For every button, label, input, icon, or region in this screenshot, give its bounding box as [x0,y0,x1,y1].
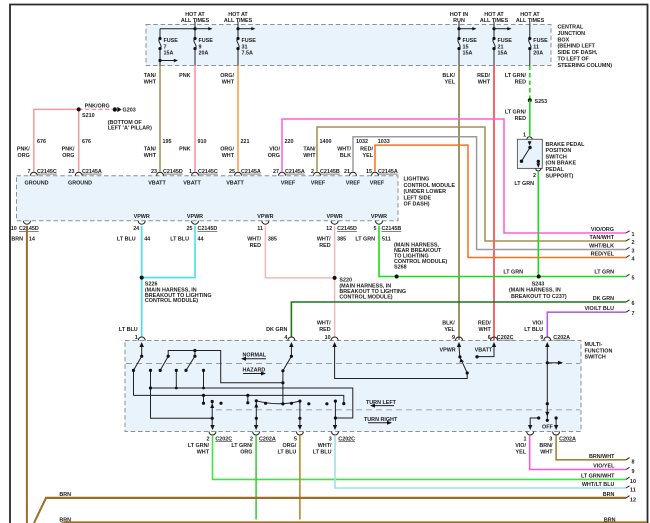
svg-text:WHT/: WHT/ [317,321,331,327]
svg-text:221: 221 [241,139,250,145]
wire LT BLU 44 (LCM pin24 to S226 to MFS pin1) [141,226,143,337]
svg-text:ORG: ORG [18,153,30,159]
svg-text:POSITION: POSITION [546,148,572,154]
svg-text:RED/YEL: RED/YEL [591,252,615,258]
svg-text:1: 1 [135,335,138,341]
svg-text:S253: S253 [535,99,548,105]
svg-text:10: 10 [325,335,331,341]
svg-text:LT GRN: LT GRN [355,237,375,243]
svg-text:RED/: RED/ [360,147,373,153]
svg-text:FUSE: FUSE [242,38,257,44]
svg-text:BLK: BLK [340,153,351,159]
svg-text:9: 9 [199,44,202,50]
svg-text:385: 385 [268,237,277,243]
svg-text:VIO/LT BLU: VIO/LT BLU [584,306,614,312]
svg-text:YEL: YEL [444,327,455,333]
svg-text:FUSE: FUSE [498,38,513,44]
MFS VBATT contact (pin6 C202C) [479,347,495,357]
svg-text:VREF: VREF [370,181,385,187]
MFS top pin row [135,335,544,341]
pin row below LCM [11,226,377,232]
svg-text:BRN: BRN [59,517,71,523]
svg-text:SWITCH: SWITCH [546,154,567,160]
wire name labels above LCM [17,147,374,159]
MFS mode dividers [126,363,580,365]
svg-text:25: 25 [229,169,235,175]
svg-text:385: 385 [337,237,346,243]
svg-text:1: 1 [524,436,527,442]
wire LT GRN/RED (S253 to brake pedal switch pin1) [529,100,531,136]
svg-text:23: 23 [69,169,75,175]
svg-text:5: 5 [632,276,635,282]
svg-text:676: 676 [37,139,46,145]
wire LT GRN 511 (brake switch pin2 to splice S243) [514,172,538,277]
svg-text:WHT/: WHT/ [247,237,261,243]
svg-text:PNK/ORG: PNK/ORG [85,103,110,109]
right edge terminals 1-7 [584,227,614,312]
wire ORG/LT BLU (MFS pin5, down off page) [299,435,301,519]
svg-text:12: 12 [326,226,332,232]
wire LT GRN 511 (LCM pin5 C2145B to terminal 5) [379,226,626,277]
svg-text:FUSE: FUSE [533,38,548,44]
svg-text:LT GRN/: LT GRN/ [231,443,253,449]
svg-text:BRN: BRN [603,492,615,498]
svg-text:GROUND: GROUND [68,181,92,187]
circuit numbers above LCM [37,139,390,145]
svg-text:15A: 15A [164,51,174,57]
svg-text:15A: 15A [498,51,508,57]
MFS turn signal contact C (pin5) [299,401,301,428]
svg-text:1: 1 [523,133,526,139]
MFS bus B1 [151,388,353,418]
svg-text:25: 25 [187,226,193,232]
svg-text:CONTROL MODULE: CONTROL MODULE [404,183,456,189]
svg-text:11: 11 [533,44,539,50]
svg-text:PNK/: PNK/ [17,147,30,153]
multi-function switch (MFS) box [125,341,581,432]
svg-text:910: 910 [198,139,207,145]
wire PNK 910 (fuse9 to LCM pin1 C2145C) [194,66,196,172]
svg-text:OFF: OFF [542,424,553,430]
svg-text:RED: RED [319,243,330,249]
svg-text:3: 3 [329,436,332,442]
fuse 15 15A [457,22,477,66]
MFS lever 2 [160,351,283,383]
svg-text:44: 44 [198,237,204,243]
central junction box (CJB) [146,25,551,66]
svg-text:CENTRAL: CENTRAL [558,25,584,31]
svg-text:7: 7 [28,169,31,175]
MFS bottom edge connector bumps and arrows [209,432,560,436]
svg-text:OF DASH): OF DASH) [404,202,430,208]
svg-text:RED: RED [319,327,330,333]
svg-text:(ON BRAKE: (ON BRAKE [546,161,577,167]
svg-text:BRN: BRN [59,492,71,498]
wire VIO/YEL (MFS pin1 to terminal 9) [530,435,626,469]
svg-text:511: 511 [382,237,391,243]
svg-text:C202C: C202C [215,436,232,442]
svg-text:WHT: WHT [144,79,157,85]
svg-text:4: 4 [284,335,287,341]
svg-text:DK GRN: DK GRN [593,296,614,302]
wire DK GRN (MFS pin4 to terminal 6) [291,302,626,337]
MFS turn signal contact D (pin3 C202C) [334,401,336,428]
svg-text:9: 9 [632,469,635,475]
svg-text:BRAKE PEDAL: BRAKE PEDAL [546,142,586,148]
svg-text:VPWR: VPWR [257,214,273,220]
feed labels [181,12,545,24]
svg-text:10: 10 [11,226,17,232]
svg-text:WHT/: WHT/ [337,147,351,153]
svg-text:NORMAL: NORMAL [243,352,267,358]
splice S210 [77,103,110,119]
svg-text:1400: 1400 [320,139,332,145]
splice S268 [394,243,447,279]
splice S226 [140,276,212,305]
svg-text:TAN/: TAN/ [144,147,157,153]
svg-text:7.5A: 7.5A [242,51,253,57]
svg-text:LEFT SIDE: LEFT SIDE [404,195,432,201]
svg-text:WHT: WHT [144,153,157,159]
svg-text:LT GRN/: LT GRN/ [505,110,527,116]
svg-text:C202A: C202A [559,436,576,442]
LCM bottom edge connector bumps [23,221,382,225]
svg-text:TAN/WHT: TAN/WHT [590,235,615,241]
svg-text:220: 220 [285,139,294,145]
svg-text:15A: 15A [463,51,473,57]
svg-text:WHT: WHT [197,450,210,456]
MFS contacts row and U-link [151,370,213,418]
svg-text:WHT/LT BLU: WHT/LT BLU [582,482,615,488]
svg-text:VPWR: VPWR [440,347,456,353]
svg-text:ORG: ORG [268,153,280,159]
wire TAN/WHT 1400 (LCM pin2 C2145B to terminal 2) [317,127,626,241]
svg-text:FUSE: FUSE [463,38,478,44]
svg-text:7: 7 [164,44,167,50]
svg-text:VIO/YEL: VIO/YEL [593,464,615,470]
wire LT GRN/ORG (MFS pin2 C202A, down off page) [255,435,257,519]
fuse 11 20A [528,22,548,66]
svg-text:9: 9 [540,335,543,341]
svg-text:VBATT: VBATT [226,181,244,187]
svg-text:SUPPORT): SUPPORT) [546,173,574,179]
svg-text:2: 2 [207,436,210,442]
svg-text:VPWR: VPWR [187,214,203,220]
wire name labels below LCM [11,237,375,249]
svg-text:VPWR: VPWR [371,214,387,220]
svg-text:2: 2 [533,173,536,179]
svg-text:VPWR: VPWR [134,214,150,220]
svg-text:YEL: YEL [363,153,374,159]
svg-text:195: 195 [163,139,172,145]
svg-text:LT GRN: LT GRN [594,270,614,276]
svg-text:LT BLU: LT BLU [524,327,543,333]
MFS turn signal pivot B (pin2 C202A) with wiper arc [255,401,257,428]
svg-text:C2145A: C2145A [378,169,398,175]
wire VIO/ORG 220 (LCM pin27 to terminal 1) [282,119,626,233]
svg-text:21: 21 [498,44,504,50]
svg-text:WHT/BLK: WHT/BLK [589,244,614,250]
svg-text:5: 5 [374,226,377,232]
svg-text:VREF: VREF [346,181,361,187]
svg-text:RED: RED [250,243,261,249]
svg-text:2: 2 [250,436,253,442]
svg-text:C2145C: C2145C [37,169,57,175]
svg-text:VIO/: VIO/ [515,443,526,449]
wire BLK/YEL 1011 (fuse15 to MFS pin9) [458,66,460,341]
wire WHT/RED 385 (LCM pin12 C2145D to MFS pin10) [334,226,336,337]
MFS off lever (pin9 C202A feed) [546,347,548,420]
svg-text:ORG/: ORG/ [220,147,234,153]
svg-text:C2145A: C2145A [285,169,305,175]
svg-text:C2145D: C2145D [198,226,218,232]
svg-text:WHT: WHT [222,153,235,159]
svg-text:31: 31 [242,44,248,50]
svg-text:YEL: YEL [516,450,527,456]
svg-text:S210: S210 [82,113,95,119]
svg-text:GROUND: GROUND [25,181,49,187]
LCM internal pin names [25,181,388,220]
fuse 7 15A [158,29,195,66]
lighting control module (LCM) box [17,176,399,221]
svg-text:VBATT: VBATT [475,347,493,353]
svg-text:TURN RIGHT: TURN RIGHT [364,417,398,423]
svg-text:C2145D: C2145D [337,226,357,232]
svg-text:LT BLU: LT BLU [278,450,297,456]
svg-text:C202A: C202A [553,335,570,341]
svg-text:15: 15 [366,169,372,175]
svg-text:3: 3 [549,436,552,442]
svg-text:YEL: YEL [445,79,456,85]
svg-text:21: 21 [344,169,350,175]
brake pedal position switch [517,133,542,179]
MFS lever 3 [186,351,195,371]
svg-text:C2145D: C2145D [19,226,39,232]
svg-text:VIO/ORG: VIO/ORG [591,227,614,233]
svg-text:11: 11 [630,488,636,494]
svg-text:4: 4 [632,257,635,263]
svg-text:MULTI-: MULTI- [585,342,603,348]
wire name labels below MFS [188,443,553,455]
svg-text:LT BLU: LT BLU [119,327,138,333]
wire LT GRN/RED (fuse11 to splice S253) [529,66,531,101]
wire BRN (to terminal 12) [34,492,626,523]
wire WHT/LT BLU (MFS pin3 C202C to terminal 11) [335,435,626,488]
svg-text:C2145A: C2145A [241,169,261,175]
svg-text:27: 27 [273,169,279,175]
svg-text:FUSE: FUSE [199,38,214,44]
svg-text:C202A: C202A [259,436,276,442]
svg-text:S243: S243 [532,281,545,287]
svg-text:VBATT: VBATT [183,181,201,187]
svg-text:20A: 20A [199,51,209,57]
svg-text:ORG/: ORG/ [220,73,234,79]
svg-text:C2145D: C2145D [163,169,183,175]
splice S243 [503,270,566,300]
svg-text:C202C: C202C [497,335,514,341]
svg-text:C2145C: C2145C [198,169,218,175]
svg-text:24: 24 [133,226,139,232]
wire RED/WHT (fuse21 to MFS pin6 C202C) [493,66,495,341]
wire ORG/WHT 221 (fuse31 to LCM pin25 C2145A) [237,66,239,172]
MFS hanging contacts from B2 [204,395,248,402]
svg-text:WHT: WHT [540,450,553,456]
svg-text:BRN: BRN [604,517,616,523]
svg-text:1033: 1033 [378,139,390,145]
wire PNK/ORG 676 (LCM pin7 C2145C to S210) [34,109,79,171]
svg-text:LIGHTING: LIGHTING [404,177,430,183]
LCM top edge connector bumps [30,172,378,176]
svg-text:VBATT: VBATT [148,181,166,187]
svg-text:1032: 1032 [356,139,368,145]
svg-text:LT GRN/: LT GRN/ [188,443,210,449]
svg-text:WHT: WHT [479,327,492,333]
wire LT GRN/WHT (MFS pin2 C202C to terminal 10) [213,435,627,479]
svg-text:LT GRN/WHT: LT GRN/WHT [581,474,615,480]
splice S253 [528,98,547,105]
svg-text:VREF: VREF [311,181,326,187]
svg-text:C2145A: C2145A [82,169,102,175]
svg-text:7: 7 [632,311,635,317]
svg-text:CONTROL MODULE): CONTROL MODULE) [145,298,198,304]
svg-text:LT GRN: LT GRN [514,181,534,187]
svg-text:5: 5 [294,436,297,442]
svg-text:ORG: ORG [240,450,252,456]
svg-text:LT BLU: LT BLU [117,237,136,243]
svg-text:TO LEFT OF: TO LEFT OF [558,57,590,63]
svg-text:LT BLU: LT BLU [170,237,189,243]
svg-text:(MAIN HARNESS, IN: (MAIN HARNESS, IN [509,288,561,294]
wire WHT/RED 385 (LCM pin11 to S220) [265,226,334,278]
wire name labels above MFS [119,321,544,333]
svg-text:BRN: BRN [11,237,23,243]
svg-text:WHT/: WHT/ [317,237,331,243]
svg-text:S268: S268 [394,265,407,271]
svg-text:TAN/: TAN/ [144,73,157,79]
svg-text:G203: G203 [123,108,136,114]
svg-text:VPWR: VPWR [327,214,343,220]
svg-text:WHT: WHT [303,153,316,159]
svg-text:9: 9 [452,335,455,341]
fuse 21 15A [492,22,512,66]
wire BRN 14 (LCM pin10 C2145D, down off page) [26,226,28,523]
svg-text:BRN/WHT: BRN/WHT [589,454,615,460]
MFS switch: headlamp lever from pin1 [134,347,142,395]
svg-text:VIO/: VIO/ [269,147,280,153]
svg-text:RED/: RED/ [477,73,490,79]
svg-text:TURN LEFT: TURN LEFT [366,400,397,406]
svg-text:RED: RED [515,79,526,85]
svg-text:PNK: PNK [179,73,190,79]
right edge terminals 8-12 [581,454,615,498]
svg-text:BOX: BOX [558,37,570,43]
wire BRN (bottom, off page) [52,517,647,523]
svg-text:8: 8 [632,459,635,465]
svg-text:(UNDER LOWER: (UNDER LOWER [404,189,447,195]
MFS feed from pin10 to flasher lever [335,347,468,379]
MFS turn signal pivot A (pin2 C202C) [211,402,213,429]
svg-text:ORG: ORG [62,153,74,159]
svg-text:BLK/: BLK/ [442,321,455,327]
svg-text:BLK/: BLK/ [442,73,455,79]
svg-text:676: 676 [82,139,91,145]
MFS hazard lever from pin4 [283,347,292,404]
svg-text:10: 10 [630,479,636,485]
svg-text:RED/: RED/ [478,321,491,327]
svg-text:LT GRN/: LT GRN/ [505,73,527,79]
svg-text:SWITCH: SWITCH [585,355,606,361]
svg-text:14: 14 [29,237,35,243]
svg-text:2: 2 [632,240,635,246]
svg-text:LEFT 'A' PILLAR): LEFT 'A' PILLAR) [108,126,152,132]
wire WHT/BLK 1032 (LCM pin21 to terminal 3) [353,137,626,250]
wire BRN/WHT (MFS pin3 C202A to terminal 8) [556,435,626,460]
svg-text:FUNCTION: FUNCTION [585,348,613,354]
MFS flasher lever (VPWR pin9) [459,347,467,373]
svg-text:CONTROL MODULE): CONTROL MODULE) [339,294,392,300]
svg-text:23: 23 [151,169,157,175]
wire PNK/ORG 676 (LCM pin23 C2145A to S210) [79,109,112,171]
pin row above LCM [28,169,373,175]
svg-text:15: 15 [463,44,469,50]
svg-text:TAN/: TAN/ [303,147,316,153]
svg-text:44: 44 [144,237,150,243]
svg-text:(BEHIND LEFT: (BEHIND LEFT [558,44,596,50]
svg-text:LT BLU: LT BLU [313,450,332,456]
MFS off contacts to pins 1 and 3 C202A [530,418,556,428]
svg-text:1: 1 [632,232,635,238]
svg-text:12: 12 [630,498,636,504]
splice S220 [333,276,406,300]
svg-text:C2145B: C2145B [320,169,340,175]
fuse 9 20A [193,22,213,66]
wire VIO/LT BLU (MFS pin9 C202A to terminal 7) [547,312,626,337]
svg-text:BREAKOUT TO C237): BREAKOUT TO C237) [511,294,567,300]
svg-text:FUSE: FUSE [164,38,179,44]
svg-text:JUNCTION: JUNCTION [558,31,586,37]
svg-text:BRN/: BRN/ [539,443,553,449]
svg-text:3: 3 [632,249,635,255]
svg-text:C2145B: C2145B [382,226,402,232]
svg-text:VIO/: VIO/ [532,321,543,327]
MFS bottom pin row [207,436,553,442]
svg-text:WHT/: WHT/ [318,443,332,449]
svg-text:RED: RED [515,116,526,122]
svg-text:PNK: PNK [179,147,190,153]
svg-text:11: 11 [257,226,263,232]
svg-text:PNK/: PNK/ [62,147,75,153]
wire LT BLU 44 (LCM pin25 C2145D to S226) [142,226,195,278]
svg-text:WHT: WHT [222,79,235,85]
svg-text:VREF: VREF [281,181,296,187]
svg-text:ORG/: ORG/ [283,443,297,449]
MFS bus B2 [134,395,344,403]
svg-text:STEERING COLUMN): STEERING COLUMN) [558,63,613,69]
fuse 31 7.5A [236,22,256,66]
svg-text:C202C: C202C [338,436,355,442]
svg-text:DK GRN: DK GRN [266,327,287,333]
svg-text:SIDE OF DASH,: SIDE OF DASH, [558,50,598,56]
svg-text:PEDAL: PEDAL [546,167,565,173]
wire TAN/WHT 195 (fuse7 to LCM pin23 C2145D) [159,66,161,172]
svg-text:6: 6 [632,301,635,307]
svg-text:WHT: WHT [478,79,491,85]
MFS top edge connector bumps and arrows [138,337,551,340]
svg-text:20A: 20A [533,51,543,57]
ground G203 [108,107,152,132]
wire RED/YEL 1033 (LCM pin15 C2145A to terminal 4) [375,145,626,257]
svg-text:LT GRN: LT GRN [503,270,523,276]
